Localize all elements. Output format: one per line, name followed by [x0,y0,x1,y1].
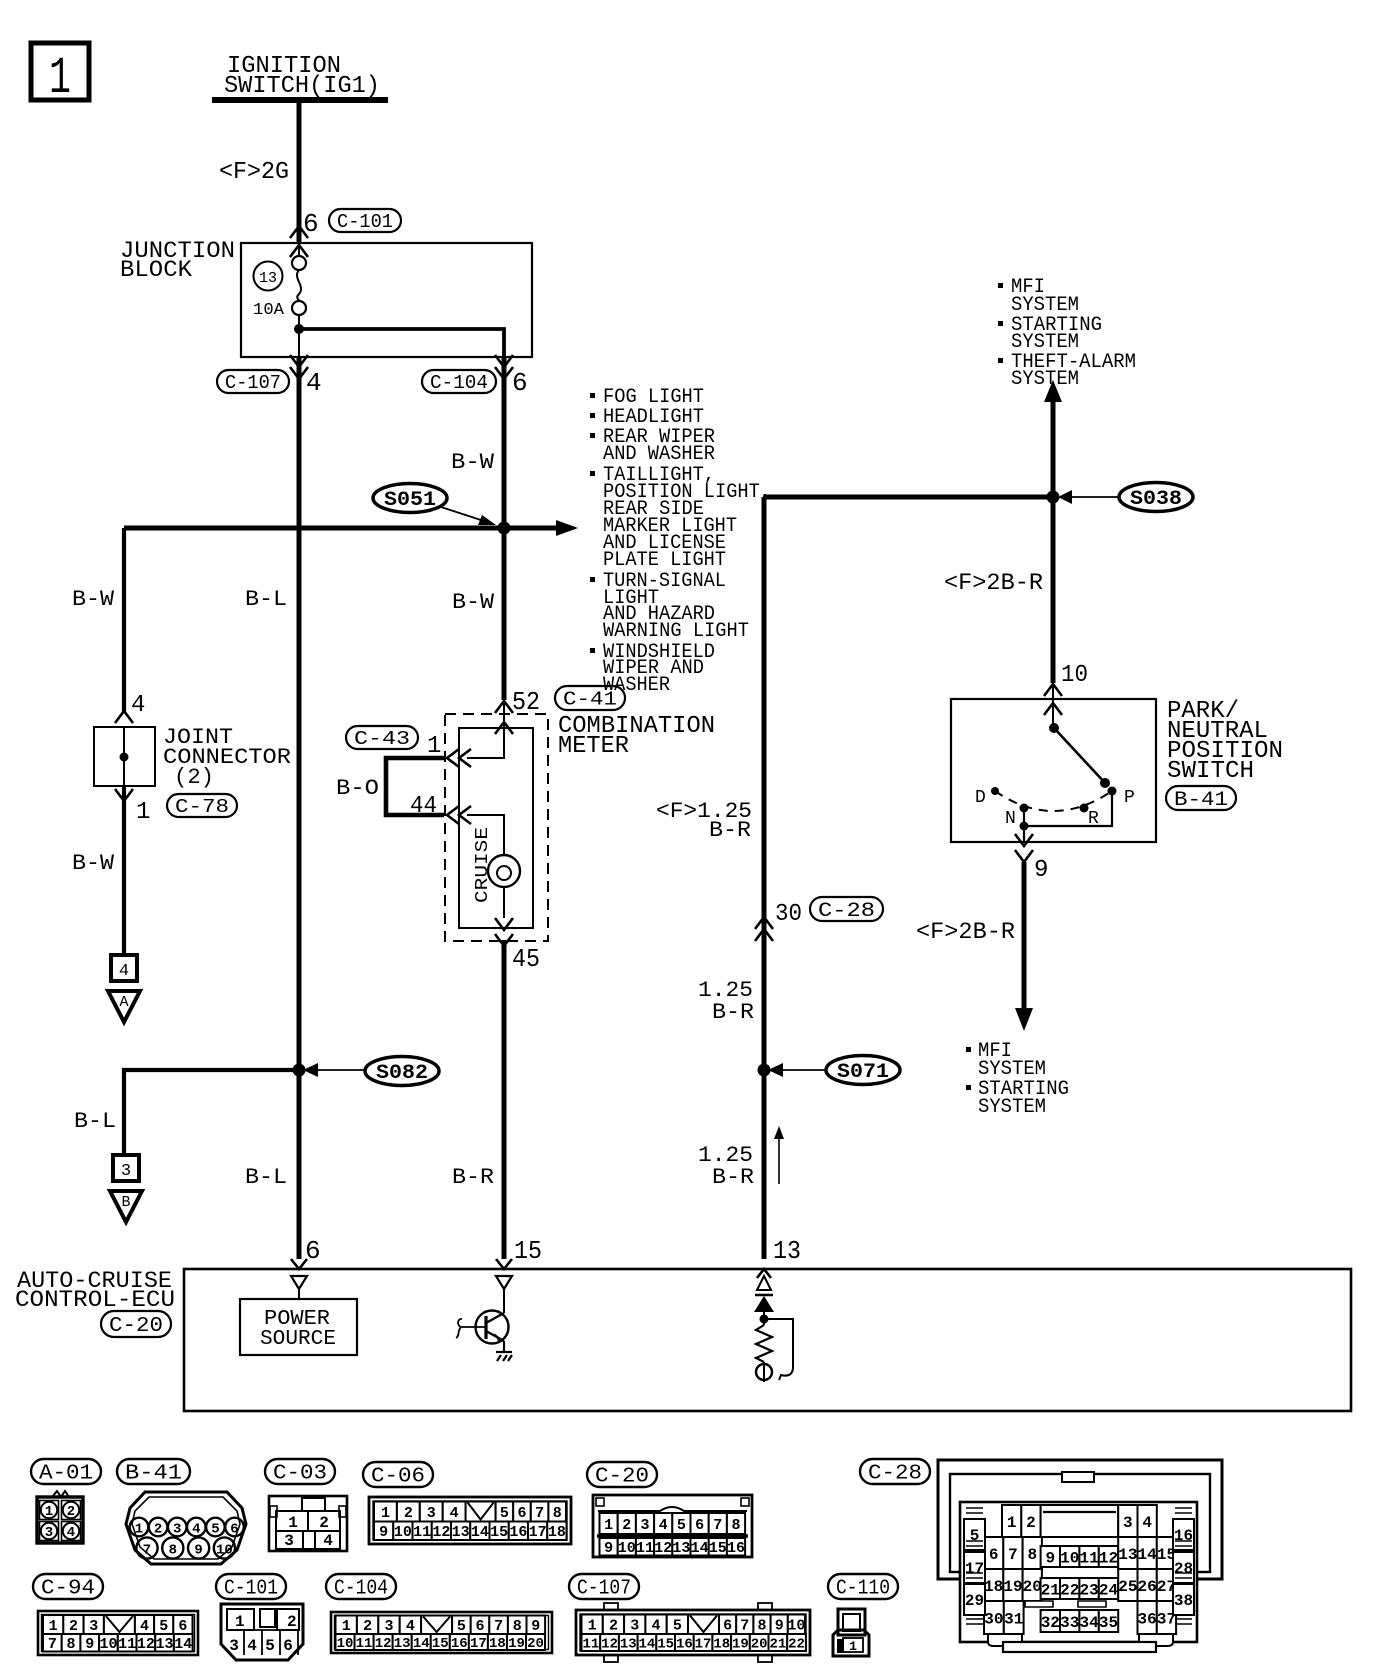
svg-text:52: 52 [512,687,540,717]
joint connector (2) C-78 [94,727,155,786]
svg-text:4: 4 [450,1505,459,1522]
connector C-20 pinout [593,1495,752,1557]
svg-text:15: 15 [709,1540,727,1557]
svg-text:9: 9 [379,1524,388,1541]
svg-text:6: 6 [230,1522,238,1538]
fuse 13 10A [253,243,306,320]
wire B-R meter to ECU pin 15 [502,940,507,1259]
svg-text:1: 1 [342,1618,351,1635]
svg-text:20: 20 [751,1637,768,1653]
svg-text:A-01: A-01 [39,1463,93,1486]
connector C-03 label [265,1459,335,1484]
park/neutral switch labels [1167,698,1283,785]
svg-text:6: 6 [512,368,528,398]
svg-text:8: 8 [513,1618,522,1635]
svg-text:30: 30 [775,901,802,928]
label B-W left / B-L / B-W row [72,587,495,615]
svg-text:7: 7 [740,1618,749,1635]
svg-text:1: 1 [1007,1514,1017,1532]
wire 2B-R down with arrow [1015,862,1033,1031]
svg-text:3: 3 [1123,1514,1133,1532]
svg-text:<F>2B-R: <F>2B-R [916,919,1015,945]
svg-text:10: 10 [618,1540,636,1557]
svg-text:28: 28 [1174,1560,1193,1578]
park/neutral pin 10 [1044,662,1088,715]
wire B-O loop outside meter [386,758,446,815]
connector C-101 pinout [221,1604,303,1660]
svg-text:7: 7 [143,1543,151,1559]
connector C-20 label [587,1462,657,1487]
svg-text:2: 2 [1026,1514,1036,1532]
svg-text:25: 25 [1118,1578,1137,1596]
wire B-L main (C-107 to ECU pin 6) [297,357,302,1259]
node S038 [1047,491,1060,504]
svg-text:5: 5 [673,1618,682,1635]
joint connector pin 4 [115,692,145,723]
svg-text:11: 11 [1079,1549,1098,1567]
svg-text:7: 7 [48,1636,57,1653]
svg-text:6: 6 [989,1546,999,1564]
svg-text:2: 2 [404,1505,413,1522]
svg-text:16: 16 [676,1637,693,1653]
meter pin 45 exit [495,918,540,974]
combination meter label [558,713,715,760]
svg-text:3: 3 [89,1618,98,1635]
svg-text:C-107: C-107 [577,1578,631,1601]
svg-text:3: 3 [229,1637,239,1655]
svg-text:<F>2B-R: <F>2B-R [944,570,1043,596]
svg-text:10A: 10A [253,301,285,320]
wire B-W (C-104 down to S051) [502,357,507,700]
svg-text:1: 1 [288,1514,298,1532]
svg-text:12: 12 [601,1637,618,1653]
svg-text:SWITCH(IG1): SWITCH(IG1) [224,73,380,100]
svg-text:22: 22 [788,1637,805,1653]
svg-text:4: 4 [247,1637,257,1655]
svg-text:26: 26 [1138,1578,1157,1596]
diode D1 [754,1295,774,1325]
svg-text:35: 35 [1099,1614,1118,1632]
splice S071 [768,1056,900,1085]
park/neutral position switch box [951,699,1156,842]
svg-text:3: 3 [640,1517,649,1534]
svg-text:34: 34 [1079,1614,1099,1632]
svg-text:C-110: C-110 [836,1578,890,1601]
system list right lower (MFI/STARTING) [966,1040,1069,1119]
svg-text:11: 11 [356,1636,373,1652]
splice S082 [303,1057,439,1086]
joint connector pin 1 / C-78 [115,789,237,826]
svg-text:C-101: C-101 [224,1578,278,1601]
svg-text:33: 33 [1060,1614,1079,1632]
wire ignition to junction block, <F>2G [219,100,299,243]
svg-text:7: 7 [713,1517,722,1534]
power source box [240,1289,357,1355]
svg-text:19: 19 [732,1637,749,1653]
svg-text:10: 10 [394,1524,412,1541]
svg-text:14: 14 [639,1637,656,1653]
connector C-28 label [860,1459,930,1484]
connector C-107 pinout [576,1603,810,1662]
connector C-101 label [216,1574,286,1599]
svg-text:1: 1 [135,1522,143,1538]
svg-text:B-R: B-R [712,1000,754,1025]
svg-text:12: 12 [375,1636,392,1652]
wire B-W to terminal 4 [72,786,124,955]
terminal box 3 [113,1155,139,1181]
connector C-94 label [33,1574,103,1599]
svg-text:7: 7 [535,1505,544,1522]
svg-text:17: 17 [529,1524,547,1541]
svg-text:B-O: B-O [336,776,379,801]
node S082 [293,1064,306,1077]
svg-text:15: 15 [657,1637,674,1653]
svg-text:10: 10 [787,1618,805,1635]
combination meter inner box [459,728,533,928]
svg-text:17: 17 [965,1560,984,1578]
svg-text:3: 3 [284,1532,294,1550]
svg-text:6: 6 [723,1618,732,1635]
svg-text:5: 5 [265,1637,275,1655]
svg-text:C-107: C-107 [225,372,281,394]
svg-text:20: 20 [1023,1578,1042,1596]
svg-text:1: 1 [49,1618,58,1635]
svg-text:9: 9 [1045,1549,1055,1567]
connector C-104 pinout [331,1612,552,1653]
svg-text:9: 9 [1034,857,1048,884]
svg-text:16: 16 [451,1636,468,1652]
svg-text:18: 18 [548,1524,566,1541]
svg-text:4: 4 [140,1618,149,1635]
svg-text:23: 23 [1079,1581,1098,1599]
svg-text:9: 9 [531,1618,540,1635]
svg-text:9: 9 [604,1540,613,1557]
svg-text:C-28: C-28 [818,900,875,923]
svg-text:B-W: B-W [72,587,115,612]
node and branch with hook [760,1315,794,1381]
svg-text:B-L: B-L [245,1165,287,1190]
svg-text:8: 8 [553,1505,562,1522]
svg-text:30: 30 [984,1610,1003,1628]
svg-text:B-W: B-W [451,450,495,475]
terminal circle [756,1362,772,1382]
svg-text:B-W: B-W [452,590,495,615]
svg-text:13: 13 [672,1540,690,1557]
svg-text:2: 2 [622,1517,631,1534]
svg-text:BLOCK: BLOCK [120,257,192,283]
svg-text:2: 2 [319,1514,329,1532]
svg-text:12: 12 [1099,1549,1118,1567]
svg-text:C-78: C-78 [175,796,229,818]
connector C-28 pin block [960,1502,1197,1652]
svg-text:6: 6 [517,1505,526,1522]
svg-text:13: 13 [259,270,277,287]
junction block internal wires and node [294,315,504,357]
svg-text:B-R: B-R [452,1165,494,1190]
svg-text:8: 8 [731,1517,740,1534]
node S071 [758,1064,771,1077]
svg-text:1: 1 [235,1613,245,1631]
svg-text:6: 6 [475,1618,484,1635]
svg-text:5: 5 [677,1517,686,1534]
park/neutral pin 9 exit [1015,834,1048,884]
connector C-107 label [569,1574,639,1599]
svg-text:2: 2 [67,1504,75,1520]
svg-text:3: 3 [173,1522,181,1538]
svg-text:S051: S051 [384,489,436,512]
svg-text:19: 19 [1003,1578,1022,1596]
svg-text:SYSTEM: SYSTEM [978,1096,1046,1119]
wire pin44 to cruise lamp [467,815,504,855]
svg-text:6: 6 [283,1637,293,1655]
connector C-107 pin 4 [217,355,322,398]
svg-text:WARNING LIGHT: WARNING LIGHT [603,620,749,643]
meter pin 44 [410,793,471,824]
svg-text:A: A [119,994,128,1011]
svg-text:7: 7 [1008,1546,1018,1564]
connector C-06 pinout [369,1497,571,1544]
svg-text:6: 6 [695,1517,704,1534]
wire pin52 down and to pin 1 [467,700,504,758]
svg-text:B: B [121,1194,130,1211]
svg-text:4: 4 [323,1532,333,1550]
connector C-110 pinout [833,1609,869,1656]
svg-text:17: 17 [695,1637,712,1653]
svg-text:13: 13 [1118,1546,1137,1564]
svg-text:5: 5 [500,1505,509,1522]
svg-text:4: 4 [192,1522,200,1538]
connector C-101 pin 6 [290,209,401,257]
ignition switch label [212,53,388,100]
svg-text:B-R: B-R [712,1165,754,1190]
svg-text:10: 10 [1060,1549,1079,1567]
svg-text:C-03: C-03 [273,1463,327,1486]
svg-text:6: 6 [305,1236,321,1266]
svg-text:10: 10 [1061,662,1088,689]
svg-text:B-41: B-41 [125,1463,182,1486]
svg-text:6: 6 [178,1618,187,1635]
svg-text:32: 32 [1041,1614,1060,1632]
svg-text:4: 4 [131,692,145,719]
svg-text:2: 2 [609,1618,618,1635]
connector B-41 pinout [126,1492,246,1564]
svg-text:14: 14 [413,1636,430,1652]
svg-text:B-R: B-R [709,818,751,843]
connector C-28 housing [938,1460,1222,1579]
svg-text:16: 16 [1174,1527,1193,1545]
svg-text:3: 3 [45,1525,53,1541]
terminal box 4 [111,955,137,981]
svg-text:C-28: C-28 [868,1463,922,1486]
ECU pin 15 entry [496,1259,512,1289]
svg-text:1: 1 [849,1639,857,1654]
svg-text:15: 15 [432,1636,449,1652]
joint connector labels [163,725,291,790]
svg-text:22: 22 [1060,1581,1079,1599]
connector C-110 label [828,1574,898,1599]
svg-text:D: D [975,788,986,808]
connector C-03 pinout [269,1496,347,1551]
svg-text:<F>2G: <F>2G [219,159,289,186]
connector C-43 pin 1 [346,726,471,767]
svg-text:1: 1 [604,1517,613,1534]
svg-text:21: 21 [769,1637,786,1653]
svg-text:SOURCE: SOURCE [260,1328,336,1351]
svg-text:4: 4 [659,1517,668,1534]
svg-text:5: 5 [970,1527,980,1545]
svg-text:8: 8 [1027,1546,1037,1564]
svg-text:19: 19 [508,1636,525,1652]
svg-text:16: 16 [727,1540,745,1557]
combination meter dashed box [445,714,548,941]
connector B-41 label [1166,786,1236,810]
svg-text:21: 21 [1041,1581,1060,1599]
svg-text:4: 4 [67,1525,75,1541]
small arrow up beside wire [774,1126,784,1184]
svg-text:8: 8 [169,1543,177,1559]
svg-text:C-06: C-06 [371,1466,425,1489]
wire S051 horizontal with arrow [124,520,578,536]
svg-text:C-101: C-101 [337,211,393,233]
svg-text:16: 16 [509,1524,527,1541]
svg-text:1: 1 [45,1504,53,1520]
svg-text:B-W: B-W [72,851,115,876]
svg-text:C-20: C-20 [595,1466,649,1489]
svg-text:2: 2 [69,1618,78,1635]
svg-text:4: 4 [306,368,322,398]
ECU pin 13 entry [757,1269,771,1290]
svg-text:B-41: B-41 [1174,789,1228,812]
page number box 1 [31,43,89,108]
system list top right (MFI/STARTING/THEFT-ALARM) [998,276,1136,391]
triangle B [110,1191,142,1222]
cruise indicator lamp [488,855,520,887]
svg-text:12: 12 [432,1524,450,1541]
svg-text:31: 31 [1004,1610,1023,1628]
auto-cruise control ECU box [184,1269,1351,1411]
svg-text:B-L: B-L [74,1109,116,1134]
svg-text:1: 1 [49,49,71,108]
svg-text:11: 11 [413,1524,431,1541]
svg-text:18: 18 [489,1636,506,1652]
svg-text:11: 11 [118,1636,136,1653]
svg-text:13: 13 [620,1637,637,1653]
svg-text:C-20: C-20 [109,1315,163,1338]
wire B-W left branch [122,528,126,713]
svg-text:2: 2 [154,1522,162,1538]
svg-text:18: 18 [713,1637,730,1653]
svg-text:13: 13 [452,1524,470,1541]
svg-text:11: 11 [582,1637,599,1653]
arrow up to systems [1044,380,1062,402]
connector A-01 label [31,1459,101,1484]
svg-text:C-41: C-41 [563,688,617,710]
svg-text:C-94: C-94 [41,1578,95,1601]
svg-text:5: 5 [211,1522,219,1538]
junction block label [120,238,235,283]
label 1.25 B-R lower [698,1143,754,1190]
svg-text:14: 14 [1138,1546,1158,1564]
svg-text:11: 11 [636,1540,654,1557]
ground in ECU [496,1341,512,1361]
connector C-28 pin 30 crossing [755,897,883,941]
resistor R1 [756,1325,772,1362]
svg-text:14: 14 [174,1636,192,1653]
label 1.25 B-R upper [698,978,754,1025]
svg-text:S082: S082 [376,1062,428,1085]
wire 2B-R vertical (S038) [1051,398,1056,683]
svg-text:4: 4 [1142,1514,1152,1532]
svg-text:1: 1 [136,799,150,826]
svg-text:17: 17 [470,1636,487,1652]
wire thick horizontal to S038 node [764,495,1053,500]
label (F)1.25 B-R [656,799,752,843]
svg-text:SYSTEM: SYSTEM [1011,368,1079,391]
triangle A [108,991,140,1022]
svg-text:7: 7 [494,1618,503,1635]
svg-text:36: 36 [1138,1610,1157,1628]
svg-text:20: 20 [527,1636,544,1652]
svg-text:P: P [1124,788,1135,808]
svg-text:S071: S071 [837,1061,889,1084]
transistor Q1 [456,1289,509,1344]
connector C-104 label [326,1574,396,1599]
svg-text:4: 4 [652,1618,661,1635]
svg-text:4: 4 [119,962,129,981]
svg-text:5: 5 [457,1618,466,1635]
svg-text:3: 3 [121,1162,131,1181]
svg-text:AND WASHER: AND WASHER [603,443,715,466]
svg-text:9: 9 [85,1636,94,1653]
svg-text:METER: METER [558,733,629,760]
svg-text:3: 3 [384,1618,393,1635]
svg-text:4: 4 [406,1618,415,1635]
svg-text:9: 9 [194,1543,202,1559]
svg-text:15: 15 [490,1524,508,1541]
svg-text:24: 24 [1099,1581,1119,1599]
svg-text:8: 8 [757,1618,766,1635]
wire 1.25 B-R vertical [762,497,767,1259]
svg-text:N: N [1005,809,1016,829]
svg-text:10: 10 [99,1636,117,1653]
svg-text:PLATE LIGHT: PLATE LIGHT [603,549,726,572]
combination meter pin 52 / C-41 [495,686,625,734]
svg-text:S038: S038 [1130,488,1182,511]
svg-text:14: 14 [471,1524,489,1541]
load list (fog light etc.) [590,386,771,697]
connector B-41 label [117,1459,190,1484]
svg-text:38: 38 [1174,1592,1193,1610]
splice S038 [1058,483,1193,512]
wire lamp to pin 45 [503,887,505,918]
svg-text:2: 2 [287,1613,297,1631]
svg-text:3: 3 [427,1505,436,1522]
svg-text:9: 9 [775,1618,784,1635]
svg-text:44: 44 [410,793,437,820]
svg-text:13: 13 [773,1236,801,1266]
svg-text:C-43: C-43 [354,728,410,750]
svg-text:C-104: C-104 [334,1578,388,1601]
svg-text:13: 13 [156,1636,174,1653]
svg-text:B-L: B-L [245,587,287,612]
connector A-01 pinout [37,1491,83,1543]
node S051 junction [498,522,511,535]
splice S051 [373,484,496,526]
connector C-104 pin 6 [422,355,528,398]
svg-text:C-104: C-104 [430,372,488,394]
svg-text:2: 2 [363,1618,372,1635]
svg-text:(2): (2) [174,765,214,790]
